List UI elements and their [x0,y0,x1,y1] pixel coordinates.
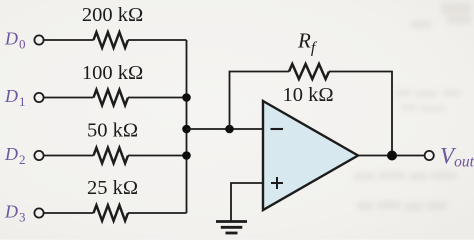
junction feedback tap [225,125,234,134]
node D2 input terminal [34,151,43,160]
node D0 input terminal [34,35,43,44]
op-amp plus sign [271,177,283,189]
resistor 100 k [94,90,129,106]
wire D3 resistor to bus [128,212,187,214]
op-amp minus sign [271,128,284,130]
svg-text:200 kΩ: 200 kΩ [82,4,143,26]
wire feedback right drop [329,72,392,156]
node Vout terminal [425,151,434,160]
node D3 input terminal [34,208,43,217]
op-amp U1 [263,101,358,210]
resistor 200 k [94,32,129,48]
resistor Rf [289,64,329,79]
wire D3 terminal to resistor [44,212,94,214]
svg-text:10 kΩ: 10 kΩ [282,84,333,106]
wire summing bus vertical [186,40,188,213]
junction bus/D2 [182,151,191,160]
junction output/feedback [387,151,397,161]
wire D2 terminal to resistor [44,155,94,157]
wire non-inverting input [231,183,263,221]
svg-text:100 kΩ: 100 kΩ [82,62,143,84]
node D1 input terminal [34,93,43,102]
junction bus/D1 [182,93,191,102]
wire D2 resistor to bus [128,155,187,157]
wire op-amp output [358,155,425,157]
resistor 50 k [94,148,129,164]
resistor 25 k [94,205,129,221]
wire D1 resistor to bus [128,97,187,99]
ground [216,222,247,234]
wire D1 terminal to resistor [44,97,94,99]
junction bus/inverting line [182,125,191,134]
wire bus to inverting input [187,128,264,130]
wire feedback left riser [230,72,290,130]
svg-text:25 kΩ: 25 kΩ [87,177,138,199]
svg-text:50 kΩ: 50 kΩ [87,120,138,142]
wire D0 resistor to bus [128,39,187,41]
wire D0 terminal to resistor [44,39,94,41]
